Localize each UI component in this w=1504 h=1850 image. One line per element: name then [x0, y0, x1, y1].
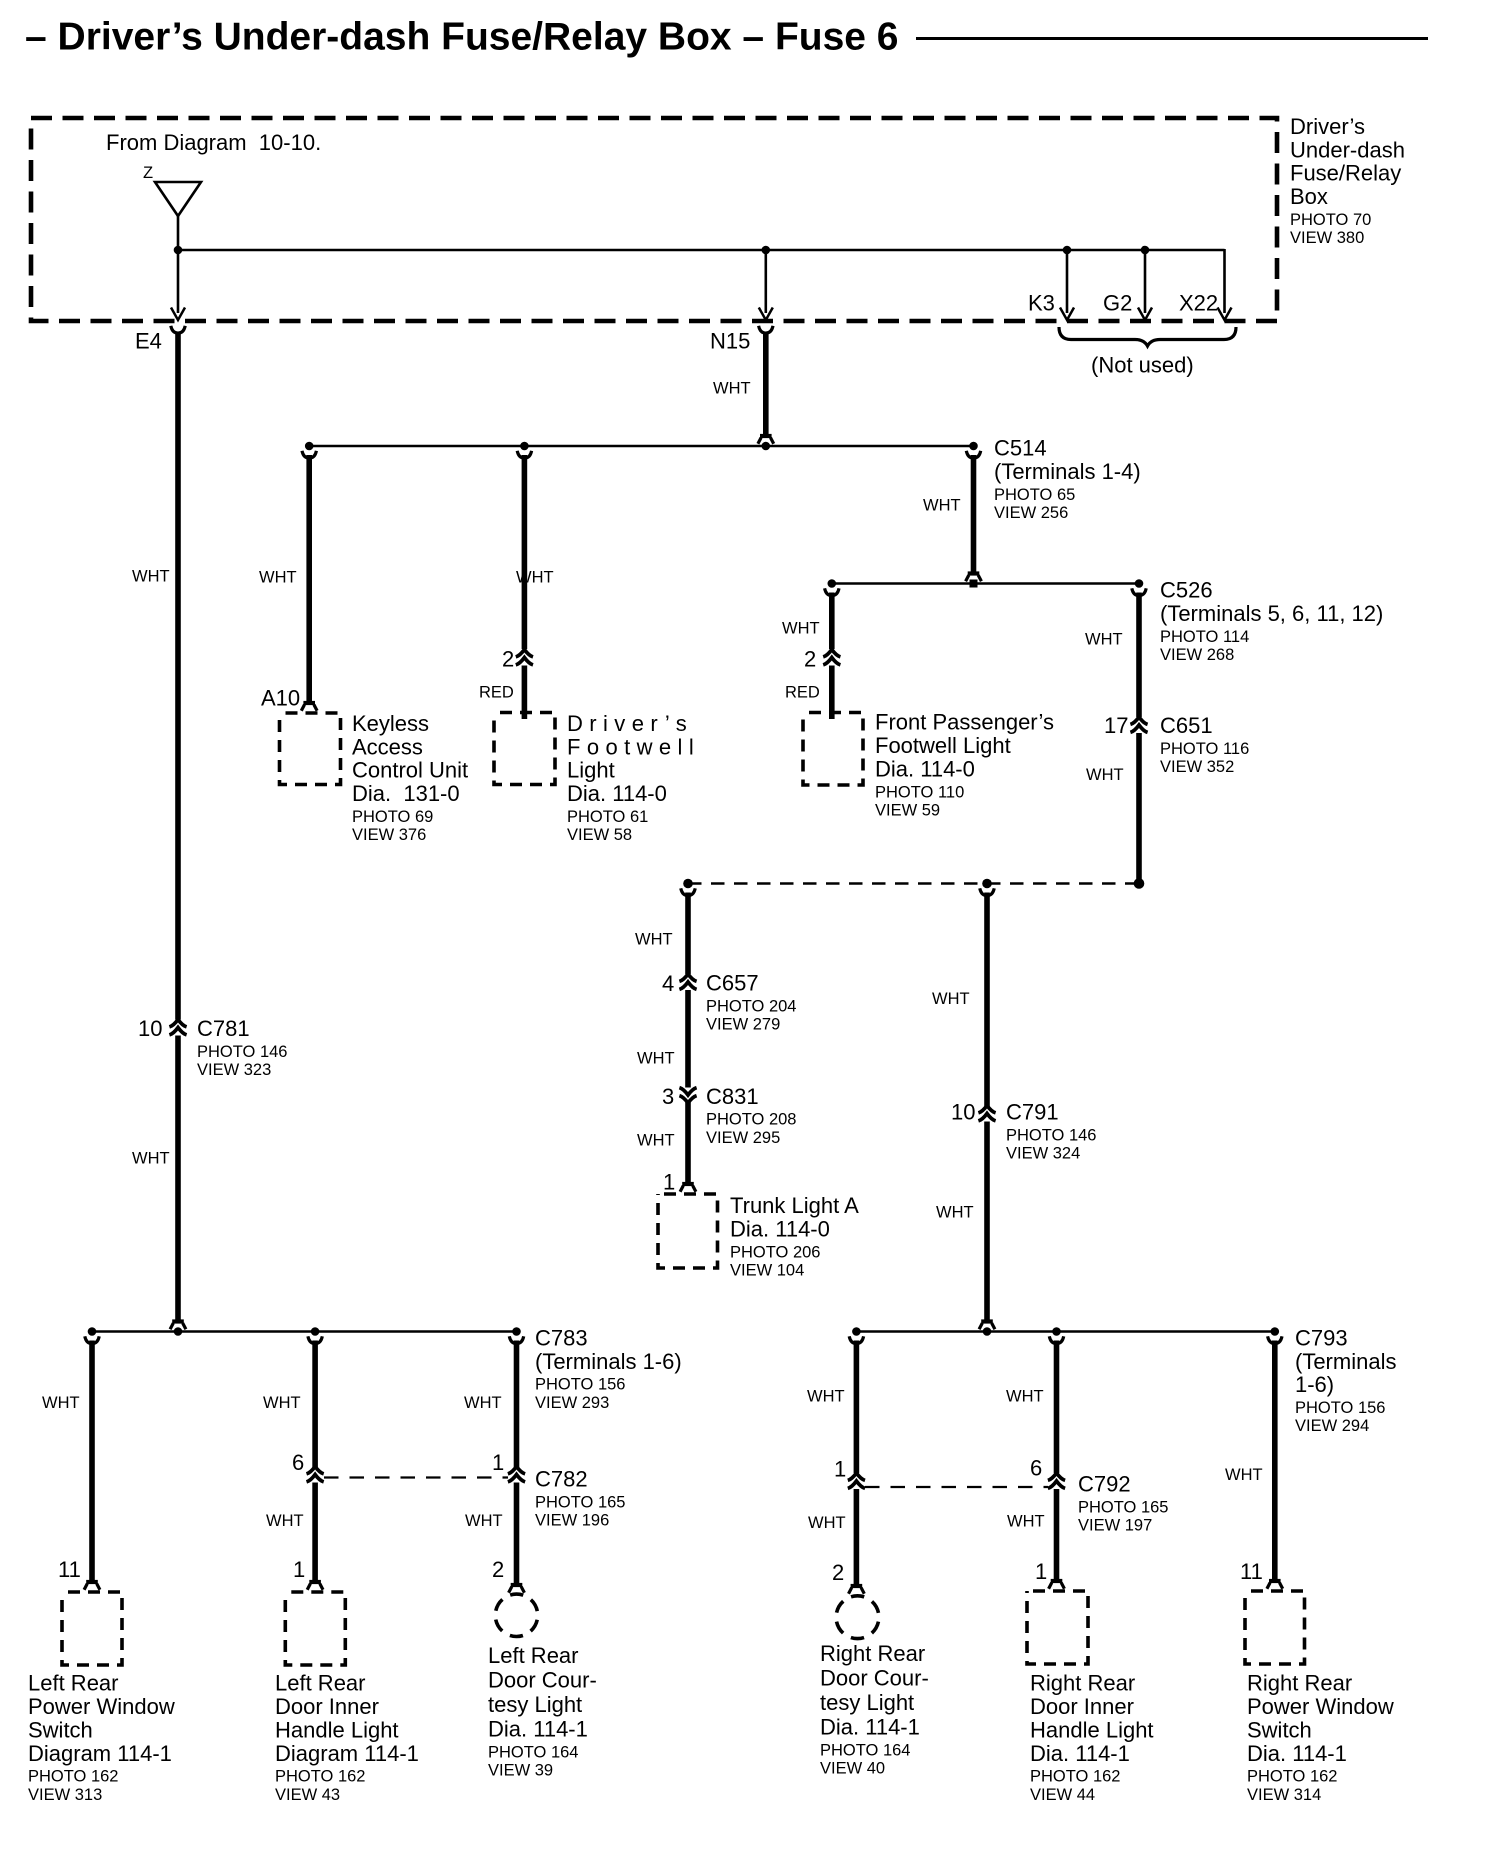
fuse/relay box boundary (dashed) [31, 118, 1277, 321]
node: junction A10 branch [305, 442, 314, 451]
svg-text:WHT: WHT [808, 1514, 846, 1532]
dashed link C782 [324, 1476, 508, 1478]
wire N15 WHT [763, 332, 769, 438]
wire: drop to E4 exit [177, 250, 180, 313]
svg-text:Under-dash: Under-dash [1290, 137, 1405, 162]
svg-text:VIEW 44: VIEW 44 [1030, 1786, 1095, 1804]
svg-text:11: 11 [1240, 1559, 1263, 1584]
svg-text:VIEW 256: VIEW 256 [994, 504, 1068, 522]
svg-text:Dia. 131-0: Dia. 131-0 [352, 781, 460, 806]
connector cup at C791 branch start [980, 888, 994, 895]
svg-text:– Driver’s Under-dash Fuse/Rel: – Driver’s Under-dash Fuse/Relay Box – F… [25, 15, 899, 58]
node: junction at E4 drop [174, 246, 183, 255]
node: junction RR handle [1052, 1327, 1061, 1336]
svg-text:WHT: WHT [132, 567, 170, 585]
svg-text:Dia. 114-1: Dia. 114-1 [1247, 1741, 1347, 1766]
node: junction trunk branch [683, 879, 693, 889]
node: junction C791 branch [982, 879, 992, 889]
svg-text:Dia. 114-0: Dia. 114-0 [567, 781, 667, 806]
node: junction front passenger branch [828, 579, 837, 588]
svg-text:2: 2 [502, 647, 514, 672]
svg-text:X22: X22 [1179, 291, 1218, 316]
component box: Driver's Footwell Light [494, 713, 555, 785]
svg-text:VIEW 268: VIEW 268 [1160, 646, 1234, 664]
bus to C526 (y=583.5) [832, 582, 1139, 585]
svg-text:Right Rear: Right Rear [1030, 1671, 1135, 1696]
wire: drop to N15 exit [764, 250, 767, 313]
svg-text:VIEW 380: VIEW 380 [1290, 229, 1364, 247]
svg-text:Fuse/Relay: Fuse/Relay [1290, 161, 1401, 186]
svg-text:Left Rear: Left Rear [488, 1643, 579, 1668]
svg-text:RED: RED [479, 683, 514, 701]
wire C791 WHT upper [984, 893, 990, 1107]
svg-text:WHT: WHT [1006, 1387, 1044, 1405]
svg-text:PHOTO 70: PHOTO 70 [1290, 211, 1371, 229]
svg-text:C792: C792 [1078, 1472, 1131, 1497]
node: junction LR power window [88, 1327, 97, 1336]
svg-text:WHT: WHT [266, 1512, 304, 1530]
svg-text:Dia. 114-1: Dia. 114-1 [488, 1717, 588, 1742]
svg-text:PHOTO 156: PHOTO 156 [1295, 1399, 1385, 1417]
connector end at C526 bus [966, 574, 982, 582]
svg-text:E4: E4 [135, 329, 162, 354]
wire A10 WHT [306, 455, 312, 705]
node: junction E4 [174, 1327, 183, 1336]
wire E4 WHT upper [175, 332, 181, 1020]
bus to C514 (y=446) [309, 445, 973, 448]
wire RR handle WHT lower [1054, 1489, 1060, 1583]
svg-text:C651: C651 [1160, 713, 1213, 738]
svg-text:VIEW 197: VIEW 197 [1078, 1517, 1152, 1535]
svg-text:VIEW 314: VIEW 314 [1247, 1786, 1321, 1804]
wire RR power window WHT [1272, 1341, 1278, 1583]
svg-text:Footwell Light: Footwell Light [875, 733, 1011, 758]
connector cup LR power window start [85, 1336, 99, 1343]
svg-text:Right Rear: Right Rear [1247, 1671, 1352, 1696]
svg-text:WHT: WHT [465, 1512, 503, 1530]
connector cup LR handle start [308, 1336, 322, 1343]
connector 2 in-line (front passenger) [823, 650, 840, 665]
connector cup at RR power window switch [1267, 1581, 1283, 1589]
connector cup RR power window start [1268, 1336, 1282, 1343]
svg-text:Footwell: Footwell [567, 734, 700, 759]
svg-text:1: 1 [492, 1450, 504, 1475]
svg-text:WHT: WHT [132, 1149, 170, 1167]
svg-text:PHOTO 146: PHOTO 146 [197, 1043, 287, 1061]
node: junction C791 [983, 1327, 992, 1336]
connector cup at LR handle light [307, 1582, 323, 1590]
component box: Keyless Access Control Unit (A10) [280, 713, 341, 785]
bus inside fuse box y=250 [178, 249, 1225, 252]
svg-text:6: 6 [292, 1450, 304, 1475]
svg-text:C791: C791 [1006, 1100, 1059, 1125]
svg-text:Z: Z [143, 164, 153, 182]
wire driver footwell RED [522, 666, 528, 720]
connector cup LR courtesy start [509, 1336, 523, 1343]
svg-text:From Diagram 10-10.: From Diagram 10-10. [106, 130, 321, 155]
connector cup at front passenger branch [825, 588, 839, 595]
svg-text:WHT: WHT [782, 619, 820, 637]
wire driver footwell WHT [522, 455, 528, 649]
connector cup at trunk branch start [681, 888, 695, 895]
svg-text:PHOTO 114: PHOTO 114 [1160, 628, 1249, 646]
svg-text:2: 2 [832, 1560, 844, 1585]
wire C791 WHT lower [984, 1122, 990, 1323]
svg-text:(Terminals 5, 6, 11, 12): (Terminals 5, 6, 11, 12) [1160, 601, 1383, 626]
svg-text:Control Unit: Control Unit [352, 758, 468, 783]
wire: drop to K3 exit [1066, 250, 1069, 313]
svg-text:PHOTO 61: PHOTO 61 [567, 808, 648, 826]
svg-text:RED: RED [785, 683, 820, 701]
svg-text:WHT: WHT [516, 568, 554, 586]
svg-text:WHT: WHT [923, 496, 961, 514]
svg-text:PHOTO 65: PHOTO 65 [994, 486, 1075, 504]
svg-text:PHOTO 204: PHOTO 204 [706, 997, 796, 1015]
svg-text:C793: C793 [1295, 1325, 1348, 1350]
node: dot at dashed bus right end [1134, 878, 1145, 889]
node: junction C514 (square) [970, 580, 978, 588]
wire RR handle WHT upper [1054, 1341, 1060, 1474]
arrow at X22 exit [1218, 308, 1232, 321]
svg-text:VIEW 43: VIEW 43 [275, 1786, 340, 1804]
svg-text:Trunk Light A: Trunk Light A [730, 1193, 859, 1218]
svg-text:4: 4 [662, 971, 674, 996]
svg-text:2: 2 [492, 1557, 504, 1582]
svg-text:PHOTO 162: PHOTO 162 [275, 1768, 365, 1786]
connector cup at C514 start [966, 451, 980, 458]
svg-text:VIEW 293: VIEW 293 [535, 1394, 609, 1412]
node: junction RR power window [1271, 1327, 1280, 1336]
connector cup RR courtesy start [849, 1336, 863, 1343]
svg-text:11: 11 [58, 1557, 81, 1582]
wire C514 WHT [971, 455, 977, 575]
svg-text:WHT: WHT [42, 1394, 80, 1412]
wire E4 WHT lower [175, 1036, 181, 1323]
svg-text:WHT: WHT [637, 1131, 675, 1149]
connector C657 terminal 4 (in-line) [679, 974, 696, 989]
title rule [916, 37, 1428, 40]
connector cup at LR courtesy light [509, 1585, 525, 1593]
svg-text:Switch: Switch [28, 1717, 93, 1742]
svg-text:10: 10 [138, 1016, 162, 1041]
svg-text:C781: C781 [197, 1016, 250, 1041]
svg-text:VIEW 323: VIEW 323 [197, 1061, 271, 1079]
wire LR courtesy WHT upper [514, 1341, 520, 1468]
node: junction C526 branch [1135, 579, 1144, 588]
connector C791 terminal 10 (in-line) [978, 1106, 995, 1121]
bus left rear (y=1331.5) [92, 1330, 517, 1333]
svg-text:C783: C783 [535, 1325, 588, 1350]
node: junction at N15 drop [762, 246, 771, 255]
svg-text:Diagram 114-1: Diagram 114-1 [275, 1741, 419, 1766]
svg-text:A10: A10 [261, 686, 300, 711]
svg-text:WHT: WHT [464, 1394, 502, 1412]
svg-text:Left Rear: Left Rear [275, 1671, 366, 1696]
dashed bus (y=883.5) [688, 882, 1139, 885]
svg-text:Dia. 114-0: Dia. 114-0 [875, 757, 975, 782]
svg-text:10: 10 [951, 1100, 975, 1125]
component box: Left Rear Power Window Switch [62, 1592, 122, 1665]
svg-text:PHOTO 164: PHOTO 164 [820, 1741, 910, 1759]
wire RR courtesy WHT upper [854, 1341, 860, 1474]
svg-text:Door Cour-: Door Cour- [488, 1668, 597, 1693]
svg-text:VIEW 313: VIEW 313 [28, 1786, 102, 1804]
svg-text:PHOTO 162: PHOTO 162 [1247, 1768, 1337, 1786]
connector C782 terminal 1 (in-line) [508, 1467, 525, 1482]
wire front passenger WHT [829, 593, 835, 650]
svg-text:PHOTO 165: PHOTO 165 [535, 1493, 625, 1511]
svg-text:Door Inner: Door Inner [275, 1694, 379, 1719]
svg-text:Power Window: Power Window [1247, 1694, 1394, 1719]
component box: Trunk Light A [658, 1194, 718, 1268]
svg-text:1: 1 [663, 1170, 675, 1195]
connector C792 terminal 1 (in-line) [848, 1473, 865, 1488]
wire C651 WHT lower [1136, 733, 1142, 881]
svg-text:WHT: WHT [1007, 1512, 1045, 1530]
svg-text:1: 1 [834, 1457, 846, 1482]
svg-text:Door Inner: Door Inner [1030, 1694, 1134, 1719]
svg-text:WHT: WHT [263, 1394, 301, 1412]
connector cup RR handle start [1049, 1336, 1063, 1343]
connector cup at driver footwell branch [517, 451, 531, 458]
svg-text:Keyless: Keyless [352, 711, 429, 736]
svg-text:2: 2 [804, 647, 816, 672]
svg-text:Right Rear: Right Rear [820, 1641, 925, 1666]
svg-text:17: 17 [1104, 713, 1128, 738]
svg-text:1: 1 [293, 1557, 305, 1582]
wire C526 WHT upper [1136, 593, 1142, 718]
svg-text:WHT: WHT [807, 1387, 845, 1405]
component box: Right Rear Power Window Switch [1245, 1591, 1305, 1664]
wire LR handle WHT upper [312, 1341, 318, 1468]
svg-text:VIEW 295: VIEW 295 [706, 1129, 780, 1147]
svg-text:C657: C657 [706, 971, 759, 996]
bus right rear (y=1331.5) [856, 1330, 1274, 1333]
svg-text:VIEW 104: VIEW 104 [730, 1261, 804, 1279]
svg-text:VIEW 196: VIEW 196 [535, 1512, 609, 1530]
wire: drop to G2 exit [1144, 250, 1147, 313]
svg-text:Diagram 114-1: Diagram 114-1 [28, 1741, 172, 1766]
connector C831 terminal 3 (in-line, inverted) [679, 1088, 696, 1103]
svg-text:WHT: WHT [635, 930, 673, 948]
svg-text:PHOTO 116: PHOTO 116 [1160, 740, 1249, 758]
svg-text:WHT: WHT [936, 1203, 974, 1221]
svg-text:PHOTO 165: PHOTO 165 [1078, 1498, 1168, 1516]
connector C782 terminal 6 (in-line) [307, 1467, 324, 1482]
source triangle Z [155, 182, 201, 216]
wire LR courtesy WHT lower [514, 1483, 520, 1587]
connector cup at A10 branch start [302, 451, 316, 458]
arrow at K3 exit [1060, 308, 1074, 321]
arrow at G2 exit [1138, 308, 1152, 321]
node: junction C514 branch [969, 442, 978, 451]
svg-text:WHT: WHT [932, 990, 970, 1008]
svg-text:Door Cour-: Door Cour- [820, 1666, 929, 1691]
svg-text:PHOTO 208: PHOTO 208 [706, 1111, 796, 1129]
svg-text:PHOTO 69: PHOTO 69 [352, 808, 433, 826]
svg-text:WHT: WHT [637, 1049, 675, 1067]
svg-text:Access: Access [352, 734, 423, 759]
svg-text:PHOTO 206: PHOTO 206 [730, 1243, 820, 1261]
svg-text:PHOTO 162: PHOTO 162 [28, 1768, 118, 1786]
component box: Right Rear Door Inner Handle Light [1027, 1591, 1088, 1664]
node: junction footwell branch [520, 442, 529, 451]
connector end at left rear bus [170, 1322, 186, 1330]
node: junction N15 [762, 442, 771, 451]
node: junction LR courtesy [512, 1327, 521, 1336]
svg-text:tesy Light: tesy Light [820, 1690, 914, 1715]
svg-text:K3: K3 [1028, 291, 1055, 316]
wire RR courtesy WHT lower [854, 1489, 860, 1588]
wire trunk WHT 3 [685, 1103, 691, 1186]
connector cup at E4 [171, 326, 185, 333]
svg-text:PHOTO 162: PHOTO 162 [1030, 1768, 1120, 1786]
connector cup at RR courtesy light [849, 1586, 865, 1594]
svg-text:WHT: WHT [1086, 766, 1124, 784]
connector C651 terminal 17 (in-line) [1130, 717, 1147, 732]
svg-text:PHOTO 164: PHOTO 164 [488, 1743, 578, 1761]
svg-text:C526: C526 [1160, 578, 1213, 603]
arrow at N15 exit [759, 308, 773, 321]
node: junction RR courtesy [852, 1327, 861, 1336]
dashed link C792 [865, 1486, 1048, 1488]
svg-text:C831: C831 [706, 1084, 759, 1109]
arrow at E4 exit [171, 308, 185, 321]
svg-text:WHT: WHT [1225, 1466, 1263, 1484]
wire: triangle to bus [177, 215, 180, 250]
svg-text:PHOTO 156: PHOTO 156 [535, 1376, 625, 1394]
svg-text:VIEW 40: VIEW 40 [820, 1760, 885, 1778]
svg-text:Driver’s: Driver’s [567, 711, 693, 736]
svg-text:Driver’s: Driver’s [1290, 114, 1365, 139]
svg-text:tesy Light: tesy Light [488, 1692, 582, 1717]
connector cup at N15 [759, 326, 773, 333]
svg-text:(Terminals: (Terminals [1295, 1349, 1396, 1374]
svg-text:Dia. 114-0: Dia. 114-0 [730, 1217, 830, 1242]
svg-text:(Not used): (Not used) [1091, 353, 1194, 378]
wire trunk WHT 2 [685, 990, 691, 1088]
svg-text:1: 1 [1035, 1559, 1047, 1584]
wire trunk WHT 1 [685, 893, 691, 975]
connector C792 terminal 6 (in-line) [1048, 1473, 1065, 1488]
connector cup at trunk light [680, 1184, 696, 1192]
svg-text:1-6): 1-6) [1295, 1372, 1334, 1397]
connector cup at LR power window switch [84, 1582, 100, 1590]
svg-text:G2: G2 [1103, 291, 1132, 316]
svg-text:Dia. 114-1: Dia. 114-1 [1030, 1741, 1130, 1766]
svg-text:C514: C514 [994, 436, 1047, 461]
svg-text:PHOTO 110: PHOTO 110 [875, 783, 964, 801]
wire front passenger RED [829, 666, 835, 720]
svg-text:Switch: Switch [1247, 1717, 1312, 1742]
svg-text:Handle Light: Handle Light [275, 1717, 399, 1742]
svg-text:WHT: WHT [1085, 630, 1123, 648]
component box: Left Rear Door Inner Handle Light [285, 1592, 345, 1665]
svg-text:(Terminals 1-4): (Terminals 1-4) [994, 459, 1141, 484]
connector 2 in-line (driver footwell) [516, 650, 533, 665]
svg-text:Dia. 114-1: Dia. 114-1 [820, 1715, 920, 1740]
svg-text:3: 3 [662, 1084, 674, 1109]
svg-text:Handle Light: Handle Light [1030, 1717, 1154, 1742]
connector cup at RR handle light [1049, 1581, 1065, 1589]
svg-text:VIEW 58: VIEW 58 [567, 826, 632, 844]
svg-text:Power Window: Power Window [28, 1694, 175, 1719]
connector cup at keyless unit [301, 703, 317, 711]
connector cup at C526 start [1132, 588, 1146, 595]
component box: Front Passenger's Footwell Light [803, 713, 863, 786]
svg-text:Light: Light [567, 758, 615, 783]
svg-text:VIEW 59: VIEW 59 [875, 801, 940, 819]
svg-text:VIEW 39: VIEW 39 [488, 1762, 553, 1780]
svg-text:Left Rear: Left Rear [28, 1671, 119, 1696]
svg-text:Box: Box [1290, 184, 1328, 209]
svg-text:WHT: WHT [259, 568, 297, 586]
wire LR handle WHT lower [312, 1483, 318, 1584]
wire LR power window WHT [89, 1341, 95, 1584]
component circle: Left Rear Door Courtesy Light [495, 1594, 537, 1636]
brace (not used) [1059, 327, 1236, 346]
node: junction LR handle [311, 1327, 320, 1336]
svg-text:6: 6 [1030, 1456, 1042, 1481]
svg-text:VIEW 324: VIEW 324 [1006, 1145, 1080, 1163]
svg-text:N15: N15 [710, 329, 750, 354]
svg-text:PHOTO 146: PHOTO 146 [1006, 1126, 1096, 1144]
svg-text:VIEW 294: VIEW 294 [1295, 1417, 1369, 1435]
svg-text:WHT: WHT [713, 379, 751, 397]
component circle: Right Rear Door Courtesy Light [836, 1596, 879, 1639]
wire: drop to X22 exit [1223, 249, 1226, 313]
svg-text:VIEW 352: VIEW 352 [1160, 758, 1234, 776]
svg-text:C782: C782 [535, 1467, 588, 1492]
node: junction at G2 drop [1141, 246, 1150, 255]
svg-text:VIEW 376: VIEW 376 [352, 826, 426, 844]
connector end at C514 bus [758, 436, 774, 444]
svg-text:(Terminals 1-6): (Terminals 1-6) [535, 1349, 682, 1374]
connector end at right rear bus [979, 1322, 995, 1330]
svg-text:VIEW 279: VIEW 279 [706, 1016, 780, 1034]
connector C781 terminal 10 (in-line) [169, 1020, 186, 1035]
svg-text:Front Passenger’s: Front Passenger’s [875, 710, 1054, 735]
node: junction at K3 drop [1063, 246, 1072, 255]
